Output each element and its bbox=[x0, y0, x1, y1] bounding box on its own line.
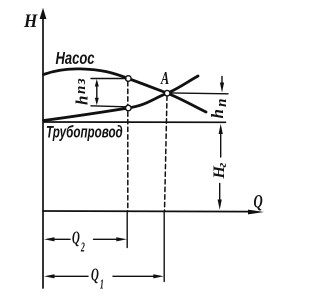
solid extension below axis at Q2 bbox=[126, 211, 128, 248]
svg-text:Q1: Q1 bbox=[91, 266, 104, 292]
static head line bbox=[44, 121, 226, 123]
H axis arrowhead bbox=[40, 8, 47, 19]
H axis bbox=[42, 16, 44, 288]
svg-text:hпз: hпз bbox=[73, 77, 92, 105]
dashed drop line at Q2 bbox=[127, 82, 129, 212]
pump curve (Насос) bbox=[44, 69, 207, 112]
svg-text:Q: Q bbox=[254, 192, 264, 212]
h_пз label bbox=[73, 77, 92, 105]
node circle on pump curve bbox=[126, 76, 132, 82]
h_пз extension line top bbox=[91, 78, 126, 80]
Q axis bbox=[43, 210, 252, 213]
h_пз extension line bottom bbox=[91, 106, 126, 107]
Q1 dimension line left part with arrow bbox=[52, 275, 88, 277]
svg-text:A: A bbox=[160, 70, 169, 89]
Q1 dimension line right part with arrow bbox=[113, 275, 156, 277]
svg-text:Hг: Hг bbox=[211, 163, 229, 180]
H_г lower arrow (pointing down at Q axis) bbox=[219, 184, 221, 201]
svg-text:Трубопровод: Трубопровод bbox=[46, 124, 123, 143]
h_п upper arrow (from above, pointing down) bbox=[221, 76, 223, 85]
pipeline curve (Трубопровод) bbox=[44, 76, 199, 121]
svg-text:Насос: Насос bbox=[56, 49, 95, 68]
h_п label bbox=[208, 96, 230, 118]
Q axis arrowhead bbox=[248, 210, 264, 215]
h_п lower arrow / H_г upper arrow (pointing up at static line) bbox=[220, 132, 222, 157]
svg-text:hп: hп bbox=[208, 96, 230, 118]
H_г label bbox=[211, 163, 229, 180]
h_пз dimension line with arrows bbox=[96, 82, 98, 103]
solid extension below axis at Q1 bbox=[163, 211, 165, 282]
svg-text:Q2: Q2 bbox=[72, 229, 85, 255]
node A circle (operating point) bbox=[164, 90, 170, 96]
svg-text:H: H bbox=[23, 10, 38, 31]
Q2 dimension line left part with arrow bbox=[52, 238, 70, 240]
node circle on pipeline curve bbox=[126, 105, 132, 111]
dashed drop line at Q1 bbox=[165, 96, 168, 211]
Q2 dimension line right part with arrow bbox=[94, 238, 120, 240]
h_п extension line at A level bbox=[170, 92, 228, 95]
